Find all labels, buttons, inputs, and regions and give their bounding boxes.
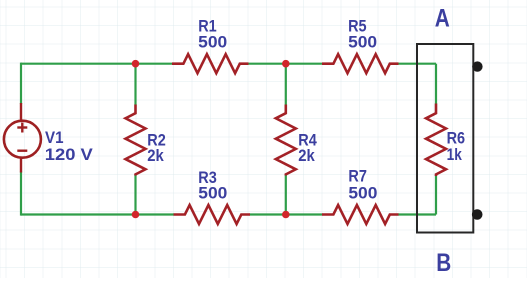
black box outline (417, 44, 473, 233)
resistor R7 (322, 205, 399, 224)
junction top-right (282, 60, 290, 68)
label R5 500 (348, 16, 377, 51)
label R2 2k (147, 130, 166, 165)
junction bottom-right (282, 211, 290, 219)
resistor R6 (426, 104, 446, 177)
wire vertical R2 branch upper (134, 64, 136, 105)
svg-text:500: 500 (348, 32, 377, 51)
wire left vertical from top net to V1 (20, 63, 22, 104)
svg-text:B: B (436, 249, 451, 277)
svg-text:2k: 2k (298, 146, 315, 165)
label R7 500 (348, 167, 377, 203)
resistor R2 (126, 105, 146, 176)
svg-text:500: 500 (348, 183, 377, 202)
wire bottom horizontal net segment 2 (250, 213, 323, 215)
resistor R1 (172, 54, 249, 73)
junction top-left (132, 60, 140, 68)
wire top horizontal net segment 3 (398, 63, 436, 65)
voltage source V1 (4, 103, 41, 173)
label V1 value 120 V (45, 128, 94, 164)
junction bottom-left (132, 211, 140, 219)
terminal B dot (472, 209, 483, 220)
wire vertical R6 branch upper (435, 64, 437, 104)
resistor R4 (276, 105, 296, 176)
wire vertical R4 branch lower (285, 175, 287, 215)
svg-text:120 V: 120 V (45, 145, 94, 164)
label R1 500 (198, 16, 227, 51)
svg-text:A: A (435, 5, 450, 33)
wire top horizontal net segment 1 (21, 63, 173, 65)
terminal A dot (472, 61, 482, 71)
wire vertical R6 branch lower (435, 176, 437, 215)
wire bottom horizontal net segment 1 (21, 213, 174, 215)
wire bottom horizontal net segment 3 (398, 213, 436, 215)
label R3 500 (198, 168, 227, 202)
resistor R3 (174, 205, 251, 224)
svg-text:500: 500 (198, 32, 227, 51)
label R6 1k (447, 129, 466, 164)
svg-text:2k: 2k (147, 146, 164, 165)
wire left vertical from V1 to bottom net (20, 172, 22, 216)
svg-text:1k: 1k (447, 145, 463, 164)
resistor R5 (322, 54, 399, 73)
wire vertical R4 branch upper (285, 64, 287, 105)
wire vertical R2 branch lower (134, 175, 136, 215)
svg-text:500: 500 (198, 183, 227, 202)
label R4 2k (298, 130, 317, 165)
wire top horizontal net segment 2 (248, 63, 323, 65)
